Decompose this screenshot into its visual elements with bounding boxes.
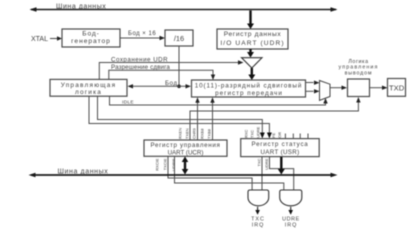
svg-text:Шина данных: Шина данных [56,4,106,11]
svg-text:Управляющая: Управляющая [61,82,117,89]
wire shift out 2 to mux [306,89,320,93]
pin control logic label [339,59,379,76]
svg-text:RXCIE: RXCIE [155,158,160,171]
wire baud (both arrows) [128,80,192,89]
wire UCR to bus (double arrow) [182,157,189,175]
svg-text:I/O UART (UDR): I/O UART (UDR) [220,40,284,47]
wire baud x16 [120,31,165,41]
UCR bit labels bottom [155,158,177,171]
svg-text:TXD: TXD [389,84,405,93]
svg-text:Шина данных: Шина данных [58,169,109,176]
UART status register USR box [241,139,320,157]
AND gate TXC [248,190,269,206]
svg-text:UART (USR): UART (USR) [260,149,299,156]
junction baud [177,85,181,89]
svg-text:TXEN: TXEN [185,128,190,139]
wire TXC IRQ out [251,207,265,229]
wire TXB8 to shift register [210,97,214,140]
wire TXEN to pin logic [190,97,361,140]
svg-text:UDRIE: UDRIE [171,158,176,171]
wire IDLE to mux select [110,96,328,105]
svg-text:Регистр статуса: Регистр статуса [252,141,309,148]
mux [320,81,331,101]
wire /16 to baud node [178,46,180,86]
divider /16 box [165,30,193,46]
wire CHR9 to shift register [195,97,199,140]
transmit shift register box [192,80,306,97]
svg-text:IRQ: IRQ [285,222,298,228]
USR flag labels bottom [256,158,269,170]
svg-text:IRQ: IRQ [252,222,265,228]
svg-text:TXB8: TXB8 [207,128,212,139]
svg-text:UDRE: UDRE [264,158,269,170]
svg-text:RXEN: RXEN [178,128,183,139]
svg-text:RXC: RXC [244,129,249,138]
svg-text:RXB8: RXB8 [200,128,205,139]
svg-text:XTAL: XTAL [31,36,48,43]
shift register clock pin [192,83,196,89]
wire store UDR [99,56,243,79]
data bus top [30,4,338,12]
UART control register UCR box [144,140,227,157]
latch buffer triangle [242,58,263,68]
baud generator box [62,29,120,47]
svg-text:FE: FE [271,133,276,138]
wire latch to shift register [248,68,255,80]
USR bit labels top [244,126,283,138]
wire shift enable [109,64,215,80]
wire shift out 1 to mux [306,81,320,85]
svg-text:UART (UCR): UART (UCR) [168,150,204,157]
data bus bottom [29,169,338,178]
svg-text:выводом: выводом [345,70,373,76]
UCR bit labels top [178,127,212,139]
wire control to USR flag 2 [89,96,272,138]
USR unconnected stubs [285,134,308,139]
wire UDR to latch [247,49,254,58]
svg-text:TXC: TXC [256,158,261,166]
wire bus to UDR [247,11,254,30]
wire mux to pin logic [330,86,347,90]
svg-text:регистр передачи: регистр передачи [215,90,283,97]
svg-text:TXC: TXC [250,130,255,138]
svg-text:Регистр управления: Регистр управления [150,142,220,149]
wire TXCIE to gate [168,156,252,190]
wire TXC flag to gate [261,157,263,190]
TXD pad box [388,79,406,97]
UART data register UDR box [217,29,288,49]
control logic box [50,79,127,96]
svg-text:10(11)-разрядный сдвиговый: 10(11)-разрядный сдвиговый [195,81,303,89]
svg-text:Бод-: Бод- [82,31,100,38]
pin control logic box [348,79,370,97]
wire UDRE flag to gate [270,157,294,190]
wire USR to bus [278,157,285,175]
svg-text:/16: /16 [174,34,184,43]
svg-text:OR: OR [277,132,282,138]
svg-text:генератор: генератор [71,38,111,45]
node XTAL [31,36,62,43]
svg-text:Регистр данных: Регистр данных [224,31,282,38]
svg-text:Бод × 16: Бод × 16 [128,31,156,37]
svg-text:TXCIE: TXCIE [163,158,168,170]
svg-text:UDRE: UDRE [256,126,261,138]
wire pin logic to TXD [370,86,388,90]
svg-text:логика: логика [75,89,102,96]
wire UDRIE to gate [175,156,284,190]
wire UDRE IRQ out [282,207,300,229]
wire control to USR flag 1 [98,96,265,138]
AND gate UDRE [280,190,302,206]
svg-text:CHR9: CHR9 [192,127,197,139]
svg-text:Бод: Бод [165,80,177,87]
